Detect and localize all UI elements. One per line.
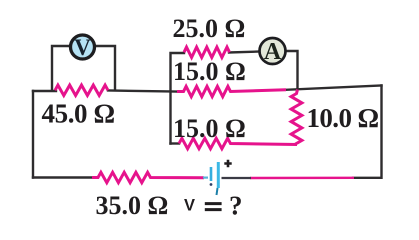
battery positive plate lower tail — [217, 188, 218, 195]
svg-text:15.0 Ω: 15.0 Ω — [173, 57, 246, 86]
wire: short lead into battery (blue tint) — [203, 177, 208, 179]
svg-text:35.0 Ω: 35.0 Ω — [96, 191, 169, 220]
svg-text:V: V — [184, 197, 195, 215]
battery negative plate (short bar) — [210, 167, 213, 181]
svg-text:V: V — [74, 35, 91, 60]
wire: main line right segment — [286, 86, 382, 90]
wire: dark lead out of battery — [222, 177, 252, 179]
wire: lower branch left lead — [171, 142, 180, 144]
voltmeter V1 — [71, 35, 95, 60]
svg-text:10.0 Ω: 10.0 Ω — [307, 103, 379, 133]
label equals sign — [205, 204, 222, 210]
svg-text:25.0 Ω: 25.0 Ω — [173, 14, 246, 43]
wire: bottom left segment — [33, 176, 93, 178]
resistor 25.0 ohm zigzag — [184, 47, 230, 57]
battery positive plate (tall bar) — [217, 162, 220, 188]
wire: bottom right segment to corner and up right edge — [353, 86, 382, 178]
battery plus sign — [224, 160, 231, 167]
svg-text:15.0 Ω: 15.0 Ω — [173, 114, 246, 143]
wire: 25 ohm branch to ammeter — [229, 52, 260, 53]
wire: ammeter to right rail, down to main line — [285, 51, 298, 89]
wire: main line left lead — [33, 90, 56, 92]
svg-text:?: ? — [229, 191, 243, 221]
wire: bottom magenta segment right of battery — [250, 177, 354, 180]
svg-text:45.0 Ω: 45.0 Ω — [42, 99, 115, 129]
resistor 10.0 ohm vertical zigzag — [291, 90, 302, 145]
wire: outer left edge — [32, 91, 34, 178]
battery negative plate dot — [210, 183, 213, 186]
wire: main line middle segment — [108, 91, 177, 92]
resistor 15.0 ohm upper zigzag with right lead — [177, 86, 286, 96]
resistor 45.0 ohm zigzag — [55, 85, 108, 95]
ammeter A1 — [260, 38, 286, 65]
wire: voltmeter loop — [52, 46, 115, 91]
resistor 35.0 ohm zigzag with leads — [92, 172, 204, 182]
resistor 15.0 ohm lower zigzag with right lead — [179, 138, 297, 148]
svg-text:A: A — [264, 39, 282, 65]
wire: left parallel rail — [171, 53, 185, 144]
